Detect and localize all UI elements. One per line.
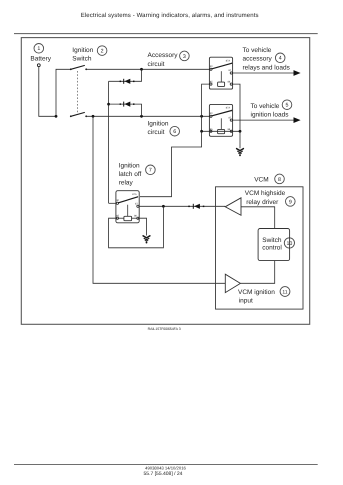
ignition input amp A2 [225, 274, 240, 292]
wire K2 coil bus [202, 130, 240, 132]
K3 body [116, 191, 139, 223]
K1 contact 85 [210, 83, 212, 85]
battery B1 terminal [37, 64, 40, 67]
node 2 callout [97, 46, 107, 56]
node 3 callout [180, 51, 190, 61]
svg-text:8: 8 [278, 177, 281, 183]
highside driver amp A1 [225, 198, 241, 216]
svg-text:To vehicle: To vehicle [243, 47, 272, 54]
svg-text:4: 4 [279, 56, 282, 62]
wire diode bus to latch relay input [109, 202, 117, 204]
D2 cathode bar [123, 102, 125, 107]
wire ignition switch to VCM input [93, 116, 225, 283]
switch S1a accessory pole [70, 65, 87, 70]
svg-text:RAIL15TR00654FA 3: RAIL15TR00654FA 3 [148, 327, 181, 331]
wire K1 coil left [202, 84, 210, 131]
footer rule [14, 464, 318, 466]
ignition circuit label [148, 120, 169, 136]
wire latch loop [109, 206, 164, 248]
VCM module box U1 [216, 187, 304, 309]
diode D3 [188, 204, 204, 209]
ground G2 [143, 236, 150, 244]
ground G1 [237, 149, 244, 157]
wire diode bus down [108, 81, 110, 203]
S1a pivot [70, 68, 72, 70]
svg-text:VCM highside: VCM highside [245, 190, 286, 197]
D3 anode lead tick [188, 206, 190, 208]
svg-text:Switch: Switch [72, 55, 92, 62]
ignition switch label [72, 47, 93, 63]
wire K3 output to VCM [139, 205, 225, 207]
svg-text:5: 5 [286, 103, 289, 109]
K1 coil [218, 82, 225, 86]
junction coil bus right [239, 130, 242, 133]
S1b contact [85, 115, 87, 117]
svg-text:1: 1 [37, 46, 40, 52]
ignition circuit wire [86, 115, 210, 117]
K1 contact 30 [210, 68, 212, 70]
svg-text:Ignition: Ignition [148, 120, 169, 127]
svg-text:7: 7 [149, 168, 152, 174]
svg-text:relay driver: relay driver [246, 199, 279, 206]
K2 contact 87A [231, 110, 232, 111]
node 4 callout [275, 53, 285, 63]
S1b pivot [70, 115, 72, 117]
svg-text:9: 9 [289, 199, 292, 205]
diode D1 [120, 79, 135, 84]
K3 contact 85 [116, 217, 118, 219]
D3 cathode bar [192, 204, 194, 209]
node 10 callout [284, 238, 294, 248]
K3 armature link [127, 205, 129, 217]
S1a contact [85, 68, 87, 70]
node 7 callout [146, 165, 156, 175]
svg-text:circuit: circuit [148, 129, 165, 136]
junction ignition/diode [140, 115, 143, 118]
accessory circuit wire [86, 68, 210, 70]
svg-text:Ignition: Ignition [72, 47, 93, 54]
wire K1 output [232, 72, 293, 74]
node 8 callout [275, 174, 285, 184]
VCM ignition input label [238, 289, 275, 305]
svg-text:11: 11 [282, 289, 287, 295]
S1b blade [71, 112, 85, 116]
wire K2 output [232, 119, 293, 121]
D1 cathode lead tick [133, 81, 135, 83]
accessory circuit label [148, 52, 179, 68]
K2 armature link [220, 118, 222, 129]
svg-text:Electrical systems - Warning i: Electrical systems - Warning indicators,… [81, 12, 259, 19]
wire switch control to ignition input amp [240, 261, 274, 284]
wire accessory junction to diode D1 [109, 69, 142, 81]
junction ignition/relay coil feed [200, 115, 203, 118]
K3 contact 87A [137, 196, 138, 197]
junction accessory/diode [140, 68, 143, 71]
K2 contact 87 [230, 119, 232, 121]
diagram frame [21, 38, 309, 325]
VCM highside relay driver label [245, 190, 286, 206]
wire coil bus to latch relay NC [140, 131, 202, 196]
K2 contact 86 [230, 130, 232, 132]
junction coil bus left [200, 130, 203, 133]
K2 body [209, 104, 232, 136]
svg-text:87A: 87A [132, 193, 137, 196]
junction diode bus [107, 103, 110, 106]
wire to ground G1 [239, 131, 241, 148]
K2 contact 30 [210, 115, 212, 117]
svg-text:circuit: circuit [148, 61, 165, 68]
svg-text:To vehicle: To vehicle [251, 103, 280, 110]
svg-text:VCM: VCM [254, 176, 268, 183]
svg-text:3: 3 [183, 54, 186, 60]
arrow to accessory loads [294, 70, 301, 76]
wire ignition junction to diode D2 [109, 104, 142, 116]
K2 contact 85 [210, 130, 212, 132]
svg-text:Ignition: Ignition [119, 163, 140, 170]
svg-text:relay: relay [119, 180, 134, 187]
relay K1 accessory [209, 57, 232, 89]
wire battery to junction [39, 67, 56, 117]
svg-text:accessory: accessory [243, 56, 273, 63]
K3 coil [124, 216, 132, 220]
K1 body [209, 57, 232, 89]
svg-text:control: control [262, 245, 282, 252]
relay K2 ignition [209, 104, 232, 136]
svg-text:Accessory: Accessory [148, 52, 179, 59]
wire K1 coil right [232, 84, 240, 131]
svg-text:87A: 87A [226, 59, 231, 62]
diode D2 [120, 102, 135, 107]
to vehicle ignition label [251, 103, 290, 118]
switch control box [258, 229, 290, 261]
wire K3 to ground G2 [138, 218, 147, 235]
switch S1b ignition pole [70, 112, 87, 117]
svg-text:input: input [239, 298, 253, 305]
node 6 callout [170, 126, 180, 136]
arrow to ignition loads [294, 117, 301, 123]
K3 contact 86 [137, 217, 139, 219]
D2 anode lead tick [120, 103, 122, 105]
D2 anode triangle [124, 102, 130, 107]
svg-text:latch off: latch off [119, 171, 142, 178]
D3 anode triangle [194, 204, 200, 209]
K1 contact 87A [231, 63, 232, 64]
svg-text:relays and loads: relays and loads [243, 64, 291, 71]
junction latch loop [162, 205, 165, 208]
K3 contact 30 [116, 202, 118, 204]
junction battery/switch [55, 115, 58, 118]
wire to accessory pole [56, 69, 71, 116]
K2 coil [218, 129, 225, 133]
K1 armature link [220, 71, 222, 82]
wire driver to switch control [241, 207, 275, 229]
svg-text:Battery: Battery [30, 55, 51, 62]
K2 switch blade [212, 111, 232, 116]
K3 contact 87 [137, 205, 139, 207]
S1a blade [71, 65, 85, 69]
K1 contact 86 [230, 83, 232, 85]
K3 coil lead 85 [118, 217, 124, 219]
K1 contact 87 [230, 72, 232, 74]
node 1 callout [34, 44, 44, 54]
D2 cathode lead tick [133, 103, 135, 105]
node 5 callout [282, 100, 292, 110]
svg-text:49038043 14/10/2016: 49038043 14/10/2016 [145, 466, 186, 471]
svg-text:ignition loads: ignition loads [251, 111, 290, 118]
header rule [14, 33, 318, 35]
switch linkage dashed [77, 71, 79, 113]
ignition latch off relay label [119, 163, 142, 187]
svg-text:2: 2 [101, 49, 104, 55]
svg-text:VCM ignition: VCM ignition [238, 289, 275, 296]
node 11 callout [280, 287, 290, 297]
junction ignition/vcm input [92, 115, 95, 118]
D1 anode triangle [124, 79, 130, 84]
D3 cathode lead tick [203, 206, 205, 208]
svg-text:55.7 [55.408] / 24: 55.7 [55.408] / 24 [144, 471, 183, 477]
svg-text:6: 6 [173, 129, 176, 135]
K3 switch blade [118, 197, 138, 203]
K1 switch blade [212, 63, 232, 69]
K3 coil lead 86 [132, 217, 138, 219]
svg-text:87A: 87A [226, 107, 231, 110]
relay K3 ignition latch off [116, 191, 139, 223]
svg-text:Switch: Switch [262, 237, 282, 244]
to vehicle accessory label [243, 47, 291, 72]
D1 anode lead tick [120, 81, 122, 83]
node 9 callout [286, 197, 296, 207]
D1 cathode bar [123, 79, 125, 84]
